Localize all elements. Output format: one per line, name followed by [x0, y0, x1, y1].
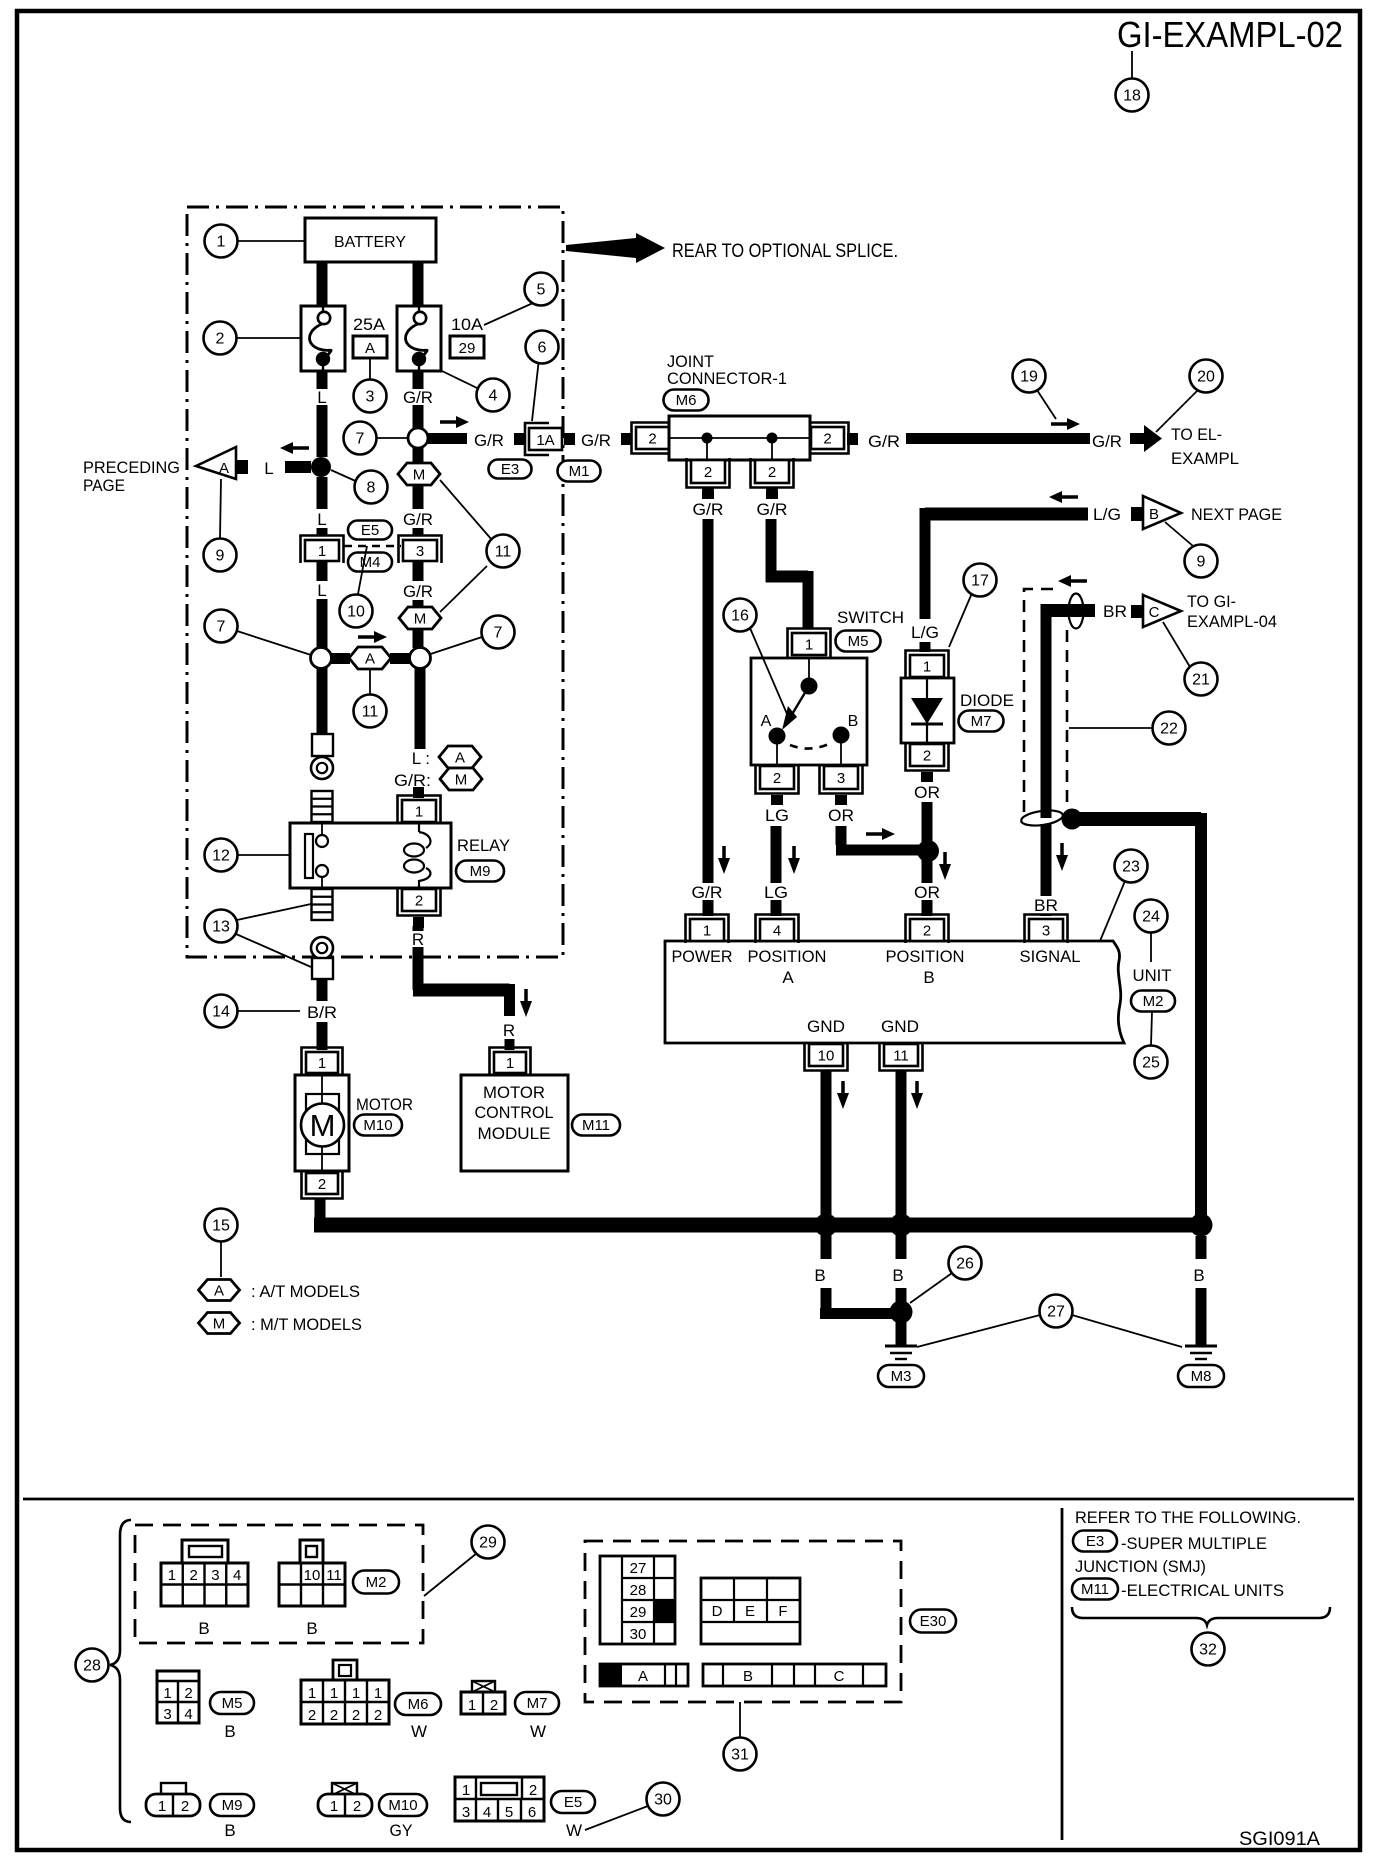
arrow right — [866, 828, 895, 840]
motor pin 1 — [302, 1048, 343, 1076]
svg-text:2: 2 — [773, 770, 781, 787]
svg-text:M: M — [455, 772, 468, 789]
svg-text:M7: M7 — [527, 1695, 548, 1712]
svg-text:22: 22 — [1160, 721, 1178, 738]
svg-text:A: A — [455, 750, 465, 767]
connector ref M7 — [515, 1692, 559, 1714]
SMJ strip A — [600, 1664, 688, 1686]
connector ref M11 — [1072, 1579, 1118, 1600]
svg-text:1: 1 — [330, 1685, 338, 1702]
svg-text:4: 4 — [483, 1804, 491, 1821]
svg-text:24: 24 — [1142, 909, 1160, 926]
svg-text:1: 1 — [923, 659, 931, 676]
stub — [771, 795, 783, 805]
wire hexagon A to node — [390, 653, 410, 664]
svg-text:W: W — [411, 1722, 427, 1741]
svg-text:G/R: G/R — [403, 388, 433, 407]
wire OR diode to junction — [922, 802, 933, 845]
ground M3 — [885, 1346, 917, 1359]
svg-text:B: B — [1193, 1266, 1204, 1285]
svg-text:1: 1 — [158, 1798, 166, 1815]
fusible link holder (hatched) — [312, 791, 333, 822]
svg-text:G/R: G/R — [1092, 432, 1122, 451]
svg-text:28: 28 — [630, 1582, 647, 1599]
wire to relay pin1 — [415, 668, 426, 749]
svg-text:M: M — [413, 467, 426, 484]
svg-text:R: R — [412, 930, 424, 949]
wire node to hexagon A — [331, 653, 350, 664]
svg-text:C: C — [834, 1668, 845, 1685]
motor pin 2 — [302, 1171, 343, 1199]
connector ref M6 — [395, 1693, 441, 1715]
wire B right branch — [1196, 1236, 1207, 1259]
svg-text:A: A — [214, 1283, 224, 1300]
svg-text:UNIT: UNIT — [1133, 966, 1172, 985]
connector face M2-A (4 cavity) — [161, 1540, 248, 1606]
connector ref M8 — [1178, 1365, 1224, 1387]
wire B/R motor feed — [317, 979, 328, 1001]
relay pin 2 — [398, 887, 441, 916]
svg-text:M9: M9 — [470, 863, 491, 880]
svg-text:2: 2 — [216, 331, 225, 348]
svg-text:1: 1 — [462, 1782, 470, 1799]
svg-text:RELAY: RELAY — [457, 836, 510, 855]
svg-text:M10: M10 — [388, 1797, 417, 1814]
wire G/R fuse to node — [413, 371, 424, 389]
wire G/R to unit POWER — [703, 519, 714, 883]
wire shield to ground bus — [1078, 812, 1201, 826]
arrow down — [911, 1081, 923, 1109]
svg-text:11: 11 — [362, 704, 379, 721]
wire L node to connector — [317, 477, 328, 509]
svg-text:OR: OR — [914, 883, 940, 902]
svg-text:8: 8 — [367, 480, 376, 497]
svg-text:29: 29 — [479, 1535, 497, 1552]
svg-text:6: 6 — [528, 1804, 536, 1821]
wire — [413, 600, 424, 607]
stub — [514, 433, 525, 445]
arrow right — [1051, 418, 1080, 430]
callout 7 — [344, 422, 377, 455]
SMJ grid rows 27-30 — [600, 1556, 675, 1644]
svg-text:BR: BR — [1034, 896, 1058, 915]
svg-text:CONTROL: CONTROL — [475, 1103, 554, 1122]
splice arrow — [566, 238, 636, 258]
hexagon flag A (A/T jumper) — [349, 647, 391, 669]
svg-text:25A: 25A — [353, 315, 386, 334]
svg-text:M7: M7 — [971, 713, 992, 730]
connector face M7 — [461, 1681, 505, 1714]
callout 10 — [340, 595, 373, 628]
svg-text:BATTERY: BATTERY — [334, 234, 406, 251]
svg-text:GY: GY — [390, 1821, 413, 1840]
separator line — [23, 1498, 1354, 1501]
callout 32 — [1192, 1633, 1225, 1666]
connector E5/M4 pin 3 — [399, 536, 442, 564]
svg-text:2: 2 — [308, 1707, 316, 1724]
svg-text:32: 32 — [1199, 1642, 1217, 1659]
motor body M10 — [295, 1075, 349, 1171]
connector face E5 — [455, 1777, 544, 1821]
svg-text:B: B — [224, 1722, 235, 1741]
svg-text:11: 11 — [326, 1567, 342, 1584]
callout 5 — [525, 273, 558, 306]
svg-text:E: E — [745, 1603, 755, 1620]
svg-text:31: 31 — [731, 1747, 749, 1764]
svg-text:B: B — [743, 1668, 753, 1685]
svg-text:4: 4 — [773, 923, 781, 940]
svg-text:G/R: G/R — [403, 510, 433, 529]
svg-text:20: 20 — [1197, 369, 1215, 386]
callout 24 — [1135, 900, 1168, 933]
unit pin 3 SIGNAL — [1025, 915, 1068, 944]
connector ref M6 — [664, 390, 709, 411]
svg-text:11: 11 — [893, 1048, 909, 1065]
svg-text:M10: M10 — [363, 1117, 392, 1134]
stub — [1131, 605, 1143, 618]
open node 7 right — [410, 648, 431, 669]
callout 13 — [205, 910, 238, 943]
svg-text:LG: LG — [765, 806, 789, 825]
svg-text:R: R — [503, 1021, 515, 1040]
callout 2 — [204, 322, 237, 355]
connector ref E30 — [910, 1610, 956, 1633]
svg-text:M2: M2 — [1143, 993, 1164, 1010]
hexagon flag A legend — [199, 1280, 240, 1301]
svg-text:M1: M1 — [569, 463, 590, 480]
connector ref M2 — [1131, 991, 1175, 1012]
diode pin 2 — [906, 742, 949, 771]
svg-text:G/R: G/R — [403, 582, 433, 601]
svg-text:2: 2 — [184, 1685, 192, 1702]
svg-text:27: 27 — [630, 1560, 647, 1577]
rating box 29 — [450, 336, 484, 358]
connector ref M10 — [379, 1794, 427, 1816]
callout 31 — [724, 1738, 757, 1771]
joint connector body M6 — [669, 416, 810, 460]
svg-text:B: B — [848, 713, 859, 730]
wire stub to preceding page — [285, 461, 311, 473]
callout 21 — [1185, 663, 1218, 696]
junction dot — [890, 1214, 913, 1237]
svg-text:L: L — [317, 510, 326, 529]
svg-text:TO EL-: TO EL- — [1171, 425, 1222, 444]
stub — [564, 433, 575, 445]
connector face M6 — [301, 1660, 389, 1724]
svg-text:1: 1 — [318, 1055, 326, 1072]
callout 7 — [482, 616, 515, 649]
svg-text:1: 1 — [330, 1798, 338, 1815]
junction dot OR — [917, 840, 939, 862]
callout 12 — [205, 839, 238, 872]
page flag A (preceding page) — [196, 447, 236, 479]
svg-text:-SUPER MULTIPLE: -SUPER MULTIPLE — [1121, 1534, 1267, 1553]
dashed box E30 — [585, 1541, 901, 1702]
connector face M10 — [318, 1783, 372, 1816]
svg-text:4: 4 — [184, 1706, 192, 1723]
svg-text:B: B — [198, 1619, 209, 1638]
stub — [921, 772, 933, 782]
svg-text:TO GI-: TO GI- — [1187, 592, 1236, 611]
callout 25 — [1135, 1046, 1168, 1079]
arrow down — [788, 846, 800, 874]
arrow right — [358, 631, 387, 643]
svg-text:B: B — [892, 1266, 903, 1285]
wire battery-left L — [317, 262, 328, 306]
svg-text:M9: M9 — [222, 1797, 243, 1814]
svg-text:5: 5 — [537, 282, 546, 299]
wire BR to unit SIGNAL — [1041, 824, 1052, 896]
svg-text:7: 7 — [217, 619, 226, 636]
underbrace — [1072, 1607, 1330, 1625]
wire BR horizontal — [1046, 604, 1095, 617]
wire GND11 to bus — [896, 1070, 907, 1225]
arrow left — [1058, 575, 1087, 587]
svg-text:1: 1 — [506, 1055, 514, 1072]
svg-text:A: A — [761, 713, 772, 730]
stub relay pin2 — [413, 917, 424, 928]
svg-text:4: 4 — [233, 1567, 241, 1584]
callout 1 — [205, 225, 238, 258]
connector ref M4 — [348, 553, 392, 572]
svg-text:3: 3 — [211, 1567, 219, 1584]
connector face M2-B (3 cavity) — [279, 1540, 345, 1606]
svg-text:3: 3 — [462, 1804, 470, 1821]
svg-text:G/R: G/R — [693, 500, 724, 519]
svg-text:POSITION: POSITION — [886, 947, 965, 966]
stub — [766, 488, 778, 499]
stub — [847, 433, 858, 445]
callout 11 — [487, 535, 520, 568]
wire motor to ground bus — [315, 1199, 326, 1222]
fusible link holder 2 (hatched) — [312, 889, 333, 920]
wire battery-right G/R — [413, 262, 424, 306]
svg-text:JUNCTION (SMJ): JUNCTION (SMJ) — [1075, 1557, 1206, 1576]
arrow left — [280, 442, 309, 454]
svg-text:10: 10 — [818, 1048, 835, 1065]
svg-text:A: A — [365, 651, 375, 668]
callout 30 — [647, 1783, 680, 1816]
off-page arrow to EL-EXAMPL — [1130, 433, 1145, 444]
svg-text:1: 1 — [374, 1685, 382, 1702]
hexagon flag M — [399, 607, 441, 629]
svg-text:C: C — [1149, 604, 1160, 621]
svg-text:7: 7 — [356, 431, 365, 448]
svg-text:B: B — [923, 968, 934, 987]
svg-text:M5: M5 — [222, 1695, 243, 1712]
connector ref E3 — [489, 460, 532, 479]
arrow down — [939, 852, 951, 880]
svg-text:B/R: B/R — [307, 1003, 337, 1022]
svg-text:SIGNAL: SIGNAL — [1020, 947, 1081, 966]
shield loop bottom — [1020, 808, 1064, 828]
switch pin 3 — [820, 764, 863, 794]
callout 6 — [526, 331, 559, 364]
unit pin 2 POSITION B — [906, 915, 949, 944]
svg-text:7: 7 — [494, 625, 503, 642]
svg-text:G/R: G/R — [757, 500, 788, 519]
svg-text:L :: L : — [412, 749, 430, 768]
grommet 2 — [311, 937, 333, 959]
wire G/R to switch — [766, 519, 777, 582]
svg-text:28: 28 — [83, 1658, 101, 1675]
wire LG to unit POSITION A — [771, 826, 782, 883]
callout 22 — [1153, 712, 1186, 745]
svg-text:2: 2 — [352, 1707, 360, 1724]
svg-text:L: L — [317, 581, 326, 600]
svg-text:30: 30 — [630, 1626, 647, 1643]
svg-text:10: 10 — [304, 1567, 321, 1584]
joint connector bottom pin 2 (left) — [687, 458, 730, 488]
svg-text:2: 2 — [823, 431, 831, 448]
svg-text:2: 2 — [923, 923, 931, 940]
open node 7 left — [311, 648, 332, 669]
svg-text:M6: M6 — [408, 1696, 429, 1713]
svg-text:29: 29 — [459, 340, 476, 357]
connector ref E5 — [551, 1791, 595, 1813]
svg-text:14: 14 — [212, 1004, 230, 1021]
svg-text:M: M — [414, 611, 427, 628]
motor control module M11 — [461, 1075, 568, 1171]
svg-text:PRECEDING: PRECEDING — [83, 458, 180, 477]
svg-text:23: 23 — [1122, 859, 1140, 876]
dashed box M2 connectors — [135, 1525, 423, 1643]
svg-text:29: 29 — [630, 1604, 647, 1621]
svg-text:EXAMPL-04: EXAMPL-04 — [1187, 612, 1277, 631]
svg-text:2: 2 — [529, 1782, 537, 1799]
wire to ground M3 — [896, 1318, 907, 1345]
svg-text:L/G: L/G — [1093, 505, 1121, 524]
svg-text:G/R: G/R — [868, 432, 900, 451]
svg-text:G/R: G/R — [474, 431, 504, 450]
shield loop top — [1069, 594, 1084, 629]
svg-text:REAR TO OPTIONAL SPLICE.: REAR TO OPTIONAL SPLICE. — [672, 241, 898, 262]
svg-text:SGI091A: SGI091A — [1239, 1829, 1320, 1850]
svg-text:LG: LG — [764, 883, 788, 902]
svg-text:26: 26 — [956, 1256, 974, 1273]
connector ref E5 — [348, 521, 392, 540]
svg-text:1: 1 — [805, 637, 813, 654]
svg-text:2: 2 — [704, 464, 712, 481]
connector ref M9 — [456, 861, 504, 882]
svg-text:21: 21 — [1192, 672, 1210, 689]
stub — [1131, 507, 1143, 521]
svg-text:B: B — [224, 1821, 235, 1840]
svg-text:OR: OR — [828, 806, 854, 825]
callout 3 — [354, 380, 387, 413]
callout 11 — [354, 695, 387, 728]
stub — [621, 433, 632, 445]
callout 18 — [1116, 79, 1149, 112]
svg-text:M11: M11 — [582, 1117, 610, 1134]
wire OR switch to junction — [836, 826, 847, 845]
wire GND10 to bus — [821, 1070, 832, 1225]
svg-text:1: 1 — [168, 1567, 176, 1584]
switch connector pin 1 — [788, 629, 831, 658]
svg-text:2: 2 — [318, 1176, 326, 1193]
wire L/G to diode — [920, 642, 931, 652]
battery — [305, 218, 436, 262]
svg-text:9: 9 — [216, 548, 225, 565]
wire — [413, 528, 424, 535]
svg-text:A: A — [782, 968, 794, 987]
svg-text:POSITION: POSITION — [748, 947, 827, 966]
callout 8 — [355, 471, 388, 504]
svg-text:BR: BR — [1103, 602, 1127, 621]
svg-text:G/R: G/R — [581, 431, 611, 450]
svg-text:1: 1 — [352, 1685, 360, 1702]
svg-text:2: 2 — [648, 431, 656, 448]
svg-text:2: 2 — [353, 1798, 361, 1815]
hexagon flag M — [398, 463, 440, 485]
unit pin 10 GND — [805, 1042, 848, 1071]
svg-text:MODULE: MODULE — [478, 1124, 551, 1143]
junction dot (ground splice) — [890, 1301, 913, 1324]
svg-text:E5: E5 — [564, 1794, 582, 1811]
svg-text:9: 9 — [1197, 554, 1206, 571]
svg-text:2: 2 — [415, 893, 423, 910]
dashed junction line — [344, 545, 401, 547]
wire L node to square — [317, 668, 328, 734]
switch body M5 — [751, 658, 867, 765]
svg-text:10: 10 — [347, 604, 365, 621]
wire L connector to node — [317, 561, 328, 581]
svg-text:25: 25 — [1142, 1055, 1160, 1072]
brace — [110, 1520, 131, 1822]
svg-text:G/R: G/R — [692, 883, 723, 902]
callout 20 — [1190, 360, 1223, 393]
svg-text:DIODE: DIODE — [960, 691, 1014, 710]
svg-text:1: 1 — [318, 543, 326, 560]
svg-text:M3: M3 — [891, 1368, 912, 1385]
svg-text:1A: 1A — [536, 432, 554, 449]
svg-text:M: M — [213, 1316, 226, 1333]
joint connector bottom pin 2 (right) — [751, 458, 794, 488]
wire B left branch — [821, 1225, 832, 1259]
svg-text:30: 30 — [654, 1792, 672, 1809]
svg-text:10A: 10A — [451, 315, 484, 334]
svg-text:G/R:: G/R: — [394, 771, 431, 790]
wire B middle branch — [896, 1225, 907, 1259]
wire OR junction to unit POSITION B — [922, 858, 933, 883]
ground M8 — [1185, 1346, 1217, 1359]
SMJ connector 1A — [525, 423, 562, 455]
svg-text:MOTOR: MOTOR — [356, 1095, 413, 1114]
svg-text:12: 12 — [212, 848, 230, 865]
fuse 10A — [397, 306, 441, 371]
svg-text:CONNECTOR-1: CONNECTOR-1 — [667, 369, 787, 388]
wire L fuse to node — [317, 371, 328, 389]
svg-text:MOTOR: MOTOR — [483, 1083, 545, 1102]
callout 23 — [1115, 850, 1148, 883]
terminal square — [312, 734, 333, 756]
shield ground junction dot — [1062, 809, 1083, 830]
svg-text:A: A — [365, 340, 375, 357]
unit pin 1 POWER — [686, 915, 729, 944]
hexagon flag A — [439, 746, 481, 768]
svg-text:1: 1 — [308, 1685, 316, 1702]
relay pin 1 — [398, 796, 441, 825]
svg-text:2: 2 — [181, 1798, 189, 1815]
callout 4 — [477, 379, 510, 412]
svg-text:B: B — [306, 1619, 317, 1638]
wire — [413, 448, 424, 464]
diode body M7 — [901, 678, 954, 743]
wire G/R long to EL-EXAMPL — [906, 433, 1090, 444]
svg-text:1: 1 — [415, 804, 423, 821]
svg-text:1: 1 — [468, 1697, 476, 1714]
svg-text:M6: M6 — [676, 392, 697, 409]
